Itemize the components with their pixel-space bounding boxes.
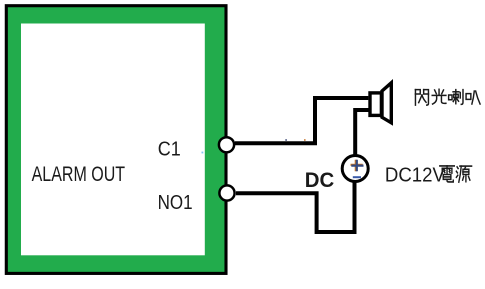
terminal NO1 circle xyxy=(219,185,234,200)
svg-text:C1: C1 xyxy=(158,137,181,160)
speaker horn xyxy=(382,83,391,123)
plus sign blue layer xyxy=(351,160,363,171)
CJK text 閃光喇叭 (flash horn) xyxy=(415,89,480,105)
wire NO1 to DC supply minus xyxy=(236,180,355,232)
CJK text 電源 (power supply) xyxy=(440,166,472,182)
DC source circle xyxy=(342,156,368,182)
char 源 xyxy=(456,166,471,182)
char 叭 xyxy=(466,91,480,104)
char 閃 xyxy=(415,90,428,105)
svg-text:DC12V: DC12V xyxy=(385,165,446,187)
svg-text:NO1: NO1 xyxy=(158,191,193,214)
minus sign xyxy=(353,176,361,178)
char 光 xyxy=(432,89,446,104)
plus sign orange layer xyxy=(351,160,363,171)
green terminal block outer frame xyxy=(6,6,226,274)
stray dot 1 on C1 wire xyxy=(285,139,287,141)
stray blue dot near C1 terminal xyxy=(202,152,204,154)
speaker body rectangle xyxy=(370,93,381,116)
char 喇 xyxy=(449,90,463,105)
svg-text:DC: DC xyxy=(305,169,335,192)
wire speaker to DC supply plus xyxy=(355,110,369,158)
char 電 xyxy=(440,166,455,182)
terminal C1 circle xyxy=(219,137,234,152)
stray dot 2 on C1 wire xyxy=(304,139,306,141)
inner white area of terminal block xyxy=(21,24,205,256)
wire C1 to speaker top xyxy=(235,98,368,143)
svg-text:ALARM OUT: ALARM OUT xyxy=(32,163,126,186)
